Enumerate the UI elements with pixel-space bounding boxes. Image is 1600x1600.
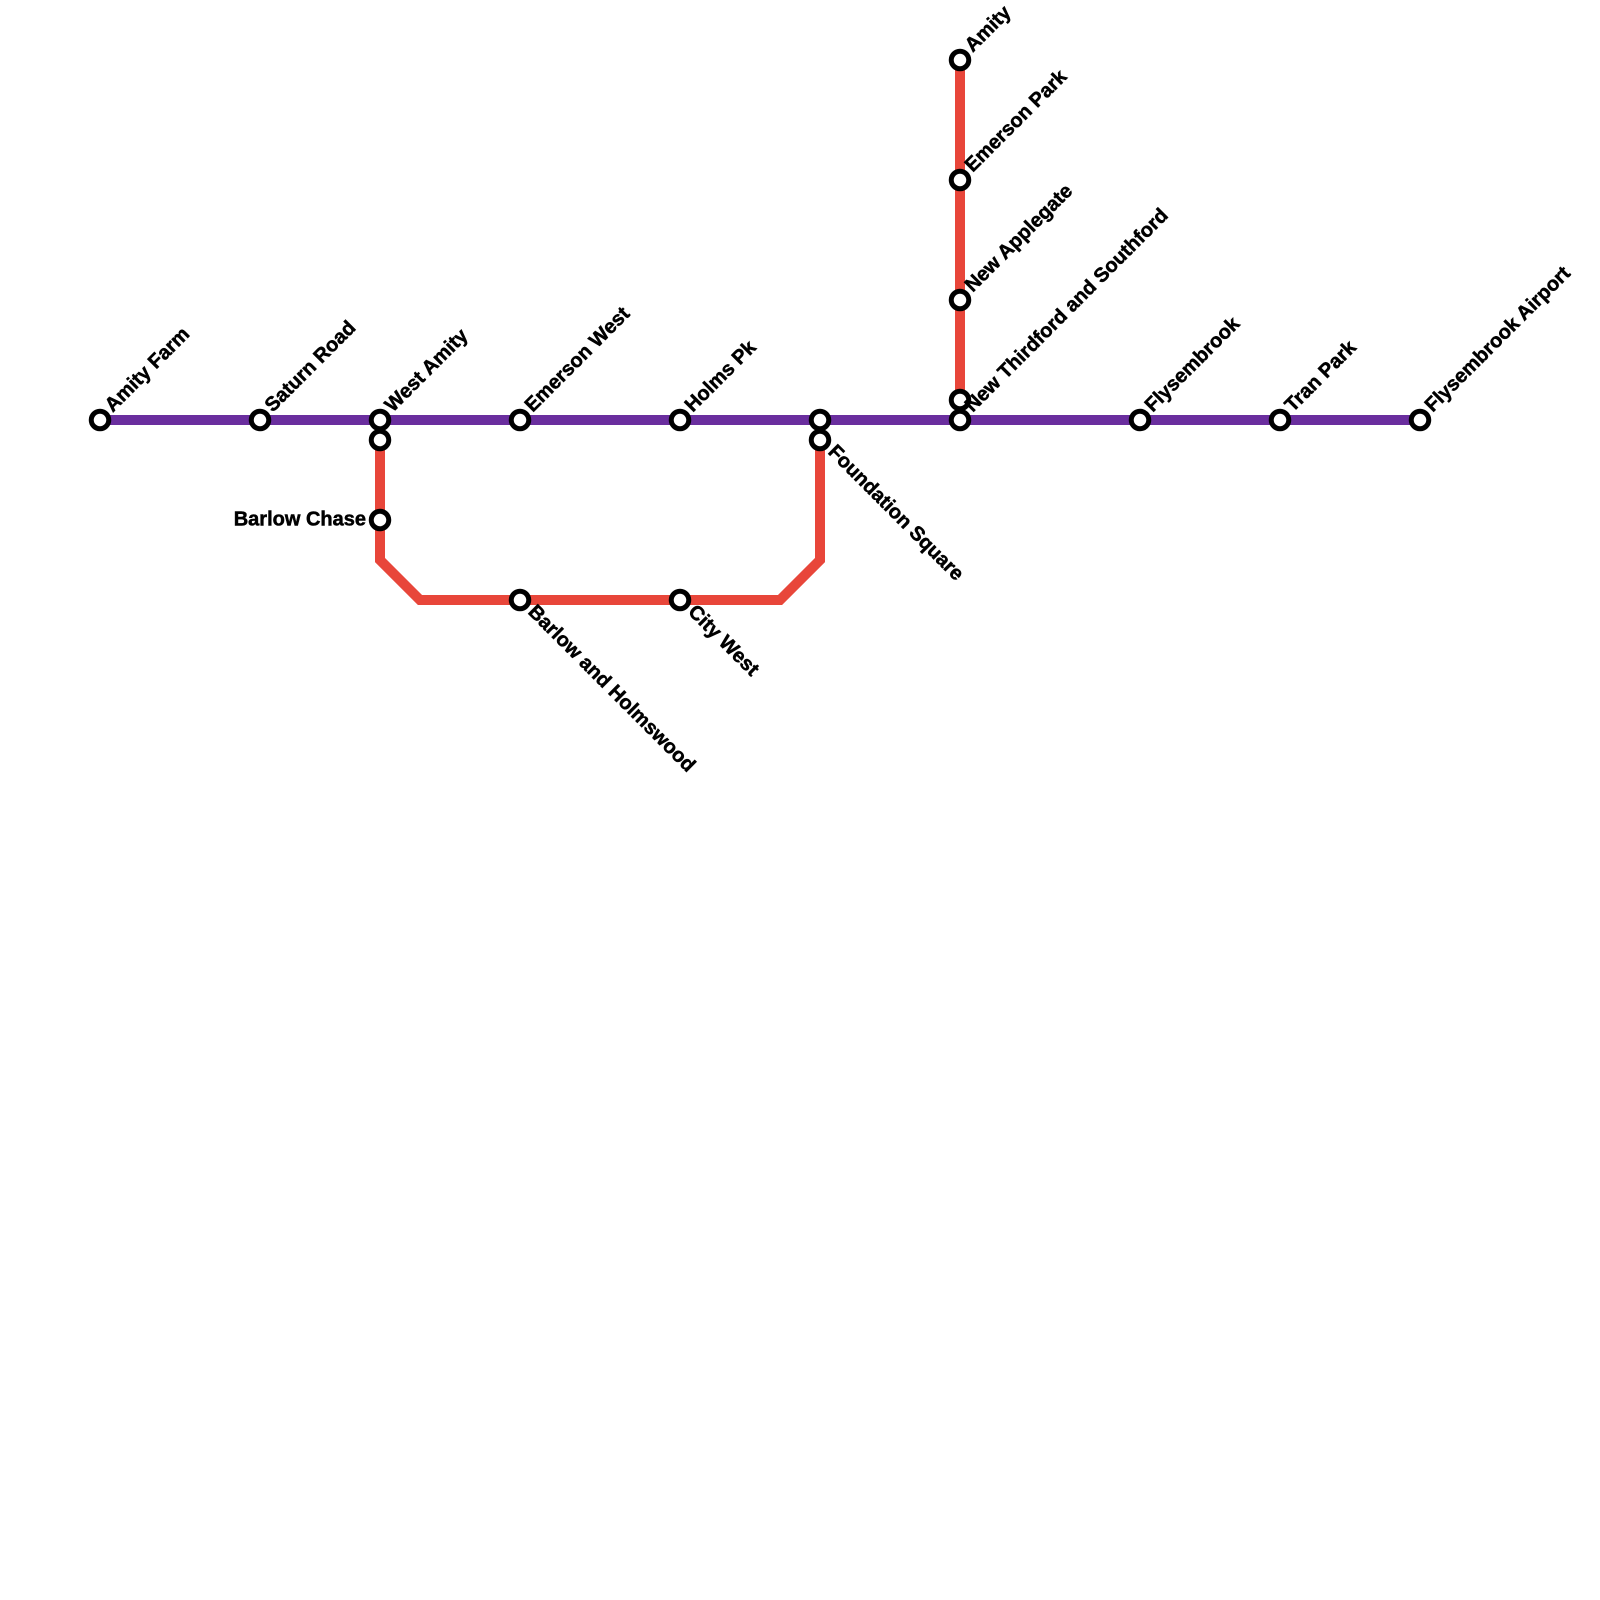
station Holms Pk — [671, 411, 689, 429]
station Barlow Chase — [371, 511, 389, 529]
station Emerson Park — [951, 171, 969, 189]
station Flysembrook — [1131, 411, 1149, 429]
svg-text:Barlow Chase: Barlow Chase — [234, 509, 366, 531]
station West Amity (red) — [371, 431, 389, 449]
purple line (Amity Farm to Flysembrook Airport) — [100, 415, 1420, 425]
station New Thirdford and Southford (purple) — [951, 411, 969, 429]
station Amity Farm — [91, 411, 109, 429]
red line: south loop (West Amity to Foundation Square) — [380, 440, 820, 600]
station Emerson West — [511, 411, 529, 429]
station Tran Park — [1271, 411, 1289, 429]
station New Thirdford and Southford (red) — [951, 391, 969, 409]
station New Applegate — [951, 291, 969, 309]
station Barlow and Holmswood — [511, 591, 529, 609]
station Foundation Square (red) — [811, 431, 829, 449]
red line: north branch (Amity to New Thirdford and Southford) — [955, 60, 965, 400]
station Flysembrook Airport — [1411, 411, 1429, 429]
station West Amity (purple) — [371, 411, 389, 429]
station Amity — [951, 51, 969, 69]
station City West — [671, 591, 689, 609]
station Foundation Square (purple) — [811, 411, 829, 429]
station Saturn Road — [251, 411, 269, 429]
